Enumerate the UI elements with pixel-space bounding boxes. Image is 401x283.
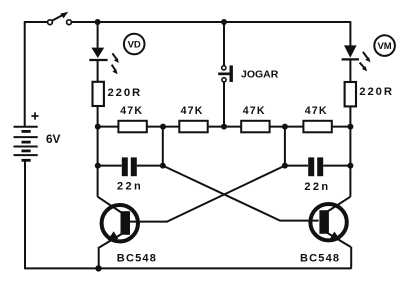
node: rail between R2 R3 — [160, 124, 166, 130]
resistor R6 220R — [345, 82, 356, 106]
wire: top-left horizontal to switch — [24, 21, 48, 23]
transistor Q2 BC548 — [310, 197, 351, 269]
wire: JOGAR branch lower — [223, 82, 225, 127]
node: C2 left — [282, 163, 288, 169]
node: rail at R6 bottom — [347, 124, 353, 130]
node: rail at JOGAR — [221, 124, 227, 130]
resistor R3 47K — [179, 121, 207, 133]
wire: JOGAR branch upper — [223, 22, 225, 66]
node: C2 right — [347, 163, 353, 169]
LED D1 (VD) — [89, 48, 119, 75]
wire: 47K rail segment 3 — [208, 126, 242, 128]
svg-text:22n: 22n — [304, 181, 330, 193]
svg-text:BC548: BC548 — [117, 252, 157, 264]
wire: 47K rail segment 2 — [147, 126, 180, 128]
wire: 47K rail segment 4 — [270, 126, 304, 128]
capacitor C1 22n — [98, 157, 163, 176]
wire: left rail vertical (battery bottom) — [24, 160, 26, 268]
wire: cross coupling C1 to Q2 base — [163, 166, 319, 221]
wire: R1 to 47K rail — [97, 106, 99, 127]
resistor R4 47K — [241, 121, 269, 133]
label: VM indicator circle — [374, 35, 395, 56]
wire: stub rail node to C2 left plate — [284, 127, 286, 166]
svg-text:6V: 6V — [46, 132, 61, 146]
capacitor C2 22n — [285, 157, 351, 176]
resistor R5 47K — [303, 121, 331, 133]
wire: left rail vertical (battery top) — [24, 21, 26, 126]
wire: cross coupling C2 to Q1 base — [129, 166, 285, 222]
node: top rail / LED VD branch — [95, 19, 101, 25]
svg-text:47K: 47K — [243, 105, 266, 117]
node: top rail / JOGAR branch — [221, 19, 227, 25]
label: VD indicator circle — [124, 34, 145, 55]
wire: VM branch top corner — [349, 21, 351, 47]
resistor R2 47K — [118, 121, 146, 133]
node: rail between R4 R5 — [282, 124, 288, 130]
wire: left column rail to Q1 collector — [97, 127, 99, 197]
svg-text:22n: 22n — [117, 181, 143, 193]
svg-text:VM: VM — [377, 41, 391, 52]
node: C1 right — [160, 163, 166, 169]
label: battery plus sign — [31, 112, 38, 119]
svg-text:47K: 47K — [181, 105, 204, 117]
svg-text:220R: 220R — [359, 86, 394, 98]
LED D2 (VM) — [342, 45, 371, 71]
node: rail at R1 bottom — [95, 124, 101, 130]
transistor Q1 BC548 — [98, 197, 138, 269]
wire: bottom rail — [24, 267, 351, 269]
wire: right column rail to Q2 collector — [349, 127, 351, 197]
svg-text:BC548: BC548 — [300, 252, 340, 264]
wire: top rail — [71, 21, 350, 23]
svg-text:JOGAR: JOGAR — [241, 69, 279, 81]
wire: LED VM cathode to R6 — [349, 59, 351, 82]
svg-text:47K: 47K — [305, 105, 328, 117]
pushbutton S2 JOGAR — [218, 65, 233, 82]
wire: LED VD anode from top rail — [97, 22, 99, 48]
resistor R1 220R — [93, 82, 104, 106]
wire: 47K rail segment 5 — [332, 126, 351, 128]
wire: stub rail node to C1 right plate — [162, 127, 164, 166]
svg-text:47K: 47K — [120, 105, 143, 117]
node: bottom rail at Q1 emitter — [95, 265, 101, 271]
svg-text:220R: 220R — [108, 87, 143, 99]
wire: R6 to 47K rail — [349, 106, 351, 126]
wire: 47K rail segment 1 — [98, 126, 119, 128]
battery B1 6V — [14, 127, 38, 161]
svg-text:VD: VD — [128, 40, 141, 51]
wire: LED VD cathode to R1 — [97, 60, 99, 82]
switch S1 — [48, 12, 72, 25]
node: C1 left — [95, 163, 101, 169]
